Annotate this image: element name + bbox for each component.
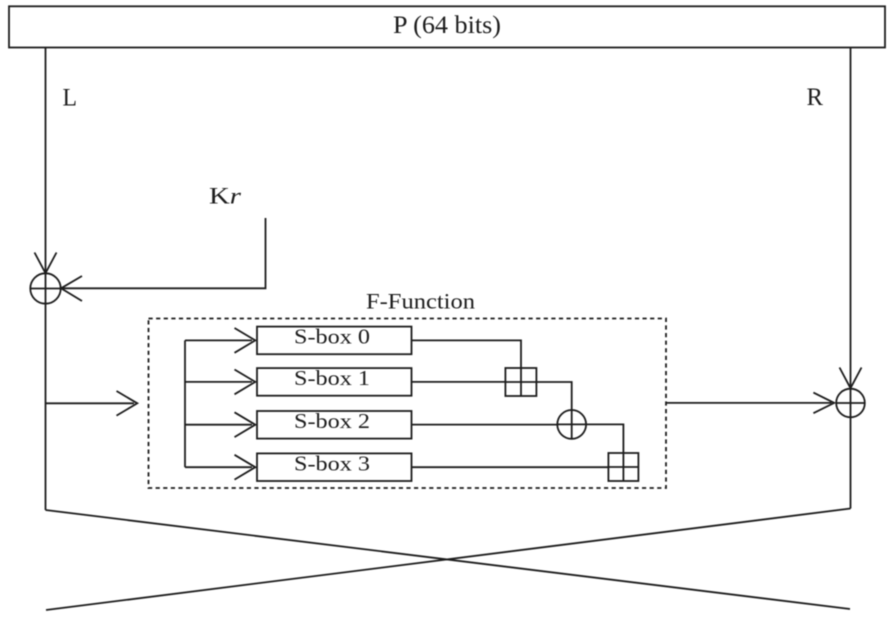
wire S-box 1 output to adder A1 [412,381,506,383]
svg-text:S-box 0: S-box 0 [294,325,370,349]
xor X3 (middle of F-function) [557,410,586,439]
arrowhead into S-box 0 [235,328,256,353]
arrowhead into S-box 1 [235,370,256,395]
svg-text:L: L [63,83,78,112]
wire feed to S-box 2 [185,424,252,426]
wire R below XOR down to swap [850,417,852,508]
arrowhead into left XOR top [35,253,57,274]
box P (64 bits) [9,6,885,47]
wire feed to S-box 1 [185,381,252,383]
adder A2 (boxed plus) [608,453,638,481]
wire S-box 0 output to adder A1 [412,340,522,368]
wire F-Function output arrow to right XOR [666,402,832,404]
svg-text:S-box 3: S-box 3 [294,451,370,475]
arrowhead of F output into right XOR [813,393,834,414]
svg-text:R: R [807,82,824,111]
wire feed to S-box 0 [185,339,252,341]
wire input arrow into F-Function [46,402,135,404]
wire distribution bus (vertical fan-out inside F) [184,340,186,467]
box S-box 0 [257,327,412,355]
wire S-box 2 output to xor X3 [412,424,558,426]
arrowhead of Kr wire into left XOR [61,276,82,301]
svg-text:Kr: Kr [209,184,242,209]
wire R vertical (from P box down to right XOR) [850,48,852,389]
wire L below XOR down to swap [45,304,47,510]
box S-box 3 [257,453,412,481]
arrowhead of input arrow [117,391,138,416]
box S-box 1 [257,368,412,396]
xor X2 (right, R xor F output) [836,389,865,418]
wire adder A1 output to xor X3 [536,382,571,410]
xor X1 (left: L xor subkey Kr) [30,273,60,303]
svg-text:P (64 bits): P (64 bits) [393,12,501,39]
wire feed to S-box 3 [185,466,252,468]
svg-text:S-box 2: S-box 2 [294,409,370,433]
wire swap diagonal B (right to bottom left) [46,509,851,611]
F-Function dashed box [149,319,667,489]
wire S-box 3 output to adder A2 [412,466,609,468]
adder A1 (boxed plus) [505,368,536,396]
arrowhead into right XOR top [840,368,862,389]
wire L vertical (from P box down to left XOR) [45,48,47,273]
wire swap diagonal A (left to bottom right) [46,510,851,609]
arrowhead into S-box 2 [235,412,256,437]
svg-text:S-box 1: S-box 1 [294,366,370,390]
wire Kr (subkey feed: down then left into left XOR) [62,218,266,288]
box S-box 2 [257,411,412,439]
svg-text:F-Function: F-Function [366,289,475,314]
arrowhead into S-box 3 [235,455,256,480]
wire xor X3 output to adder A2 [586,424,623,453]
